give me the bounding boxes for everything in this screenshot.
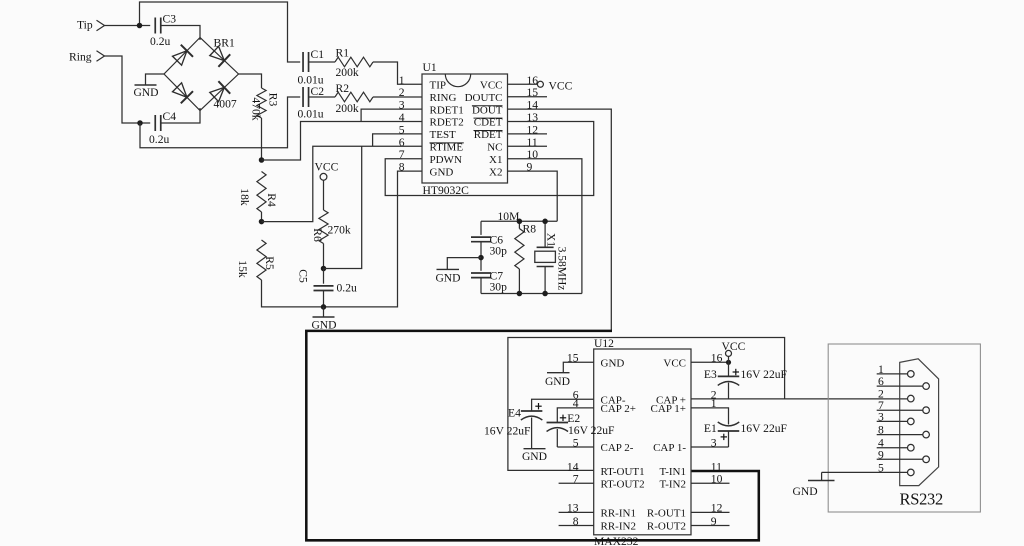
svg-text:6: 6 (878, 375, 884, 388)
svg-text:6: 6 (399, 136, 405, 149)
svg-text:R2: R2 (336, 82, 350, 95)
svg-text:15k: 15k (236, 260, 249, 278)
svg-text:CAP 2-: CAP 2- (601, 442, 634, 454)
svg-text:VCC: VCC (663, 358, 686, 370)
svg-text:10M: 10M (498, 210, 520, 223)
svg-text:GND: GND (545, 375, 570, 388)
svg-text:CAP 1-: CAP 1- (653, 442, 686, 454)
svg-text:18k: 18k (238, 188, 251, 206)
svg-text:E3: E3 (704, 368, 717, 381)
svg-text:7: 7 (399, 148, 405, 161)
svg-text:9: 9 (878, 448, 884, 461)
svg-text:2: 2 (399, 86, 405, 99)
svg-text:0.2u: 0.2u (337, 282, 357, 295)
svg-text:T-IN2: T-IN2 (660, 479, 686, 491)
svg-text:RT-OUT2: RT-OUT2 (601, 479, 645, 491)
svg-text:R3: R3 (267, 93, 280, 107)
svg-text:R4: R4 (265, 193, 278, 207)
svg-text:GND: GND (430, 166, 454, 178)
svg-text:PDWN: PDWN (430, 154, 462, 166)
svg-text:5: 5 (399, 123, 405, 136)
svg-text:R-OUT2: R-OUT2 (647, 521, 686, 533)
svg-text:RDET1: RDET1 (430, 104, 464, 116)
svg-text:3.58MHz: 3.58MHz (556, 247, 568, 291)
svg-text:13: 13 (527, 111, 539, 124)
svg-text:GND: GND (311, 319, 336, 332)
svg-text:11: 11 (711, 460, 722, 473)
svg-text:VCC: VCC (315, 161, 339, 174)
svg-text:R1: R1 (336, 47, 350, 60)
svg-text:CAP 2+: CAP 2+ (601, 403, 636, 415)
svg-text:DOUTC: DOUTC (465, 92, 503, 104)
svg-text:RS232: RS232 (900, 490, 943, 509)
svg-text:VCC: VCC (549, 80, 573, 93)
svg-text:R6: R6 (311, 228, 324, 242)
svg-text:R5: R5 (263, 256, 276, 270)
svg-text:HT9032C: HT9032C (423, 184, 470, 197)
svg-text:16V 22uF: 16V 22uF (741, 368, 788, 381)
svg-text:200k: 200k (336, 66, 359, 79)
svg-text:RR-IN2: RR-IN2 (601, 521, 636, 533)
svg-text:4: 4 (399, 111, 405, 124)
svg-text:16V 22uF: 16V 22uF (568, 424, 615, 437)
svg-text:GND: GND (133, 86, 158, 99)
svg-text:VCC: VCC (480, 80, 503, 92)
svg-text:C1: C1 (311, 48, 325, 61)
svg-text:0.2u: 0.2u (149, 133, 169, 146)
svg-text:U1: U1 (423, 61, 437, 74)
svg-text:3: 3 (878, 410, 884, 423)
svg-text:R-OUT1: R-OUT1 (647, 508, 686, 520)
svg-text:8: 8 (399, 161, 405, 174)
svg-text:VCC: VCC (722, 340, 746, 353)
svg-text:X2: X2 (489, 166, 502, 178)
svg-text:Tip: Tip (77, 19, 93, 32)
svg-text:T-IN1: T-IN1 (660, 466, 686, 478)
svg-text:X1: X1 (545, 233, 558, 247)
svg-text:RR-IN1: RR-IN1 (601, 508, 636, 520)
svg-text:1: 1 (399, 74, 405, 87)
svg-text:NC: NC (487, 142, 502, 154)
svg-text:C3: C3 (163, 13, 177, 26)
svg-text:270k: 270k (328, 224, 351, 237)
svg-text:200k: 200k (336, 102, 359, 115)
svg-text:GND: GND (522, 450, 547, 463)
svg-text:X1: X1 (489, 154, 502, 166)
svg-text:GND: GND (793, 485, 818, 498)
svg-text:R8: R8 (523, 223, 537, 236)
svg-text:30p: 30p (490, 281, 508, 294)
svg-text:C5: C5 (297, 269, 310, 283)
svg-text:30p: 30p (490, 245, 508, 258)
svg-text:16V 22uF: 16V 22uF (741, 422, 788, 435)
svg-text:E1: E1 (704, 422, 717, 435)
svg-text:1: 1 (878, 363, 884, 376)
svg-text:E4: E4 (508, 407, 521, 420)
svg-text:TIP: TIP (430, 80, 447, 92)
svg-text:RT-OUT1: RT-OUT1 (601, 466, 645, 478)
svg-text:0.2u: 0.2u (150, 35, 170, 48)
svg-text:RDET2: RDET2 (430, 117, 464, 129)
svg-text:3: 3 (399, 99, 405, 112)
svg-text:RING: RING (430, 92, 457, 104)
svg-text:470k: 470k (250, 97, 263, 120)
svg-text:16V 22uF: 16V 22uF (484, 425, 531, 438)
svg-text:14: 14 (567, 460, 579, 473)
svg-text:C4: C4 (163, 110, 177, 123)
svg-text:Ring: Ring (69, 51, 92, 64)
svg-text:GND: GND (435, 271, 460, 284)
svg-text:GND: GND (601, 358, 625, 370)
svg-text:U12: U12 (594, 337, 614, 350)
svg-text:8: 8 (878, 424, 884, 437)
svg-text:0.01u: 0.01u (298, 108, 324, 121)
svg-text:TEST: TEST (430, 129, 457, 141)
svg-text:CAP 1+: CAP 1+ (651, 403, 686, 415)
svg-text:MAX232: MAX232 (594, 535, 639, 546)
svg-text:C2: C2 (311, 85, 325, 98)
